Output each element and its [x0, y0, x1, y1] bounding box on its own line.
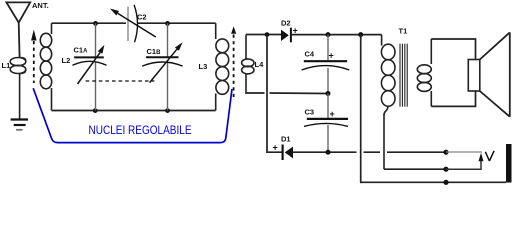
battery terminal bar	[506, 144, 512, 183]
wire row2 (T1 primary return to V)	[384, 168, 446, 170]
node junction T1 drop	[358, 32, 363, 37]
wire tank bottom rail	[52, 110, 216, 112]
svg-text:C4: C4	[305, 50, 315, 59]
trimmer capacitor C2	[110, 5, 156, 43]
svg-text:+: +	[273, 143, 278, 153]
wire speaker loop	[431, 39, 475, 106]
wire top rail to T1	[292, 34, 382, 36]
svg-text:D1: D1	[281, 135, 291, 144]
transformer T1 core	[400, 44, 407, 107]
node junction C3 bottom	[326, 150, 331, 155]
svg-text:T1: T1	[399, 27, 408, 36]
node terminal row1	[443, 150, 448, 155]
blue brace (nuclei regolabile pointer)	[33, 88, 232, 142]
dashed coupling arrow (L1-L2 adjustable core)	[31, 30, 36, 84]
dashed coupling arrow (L3-L4 adjustable core)	[231, 26, 236, 97]
inductor L1	[10, 58, 26, 119]
transformer T1 primary	[381, 35, 395, 170]
wire bottom rail row1	[293, 151, 446, 153]
diode D1	[273, 143, 294, 161]
svg-text:L3: L3	[199, 62, 208, 71]
wire D1 left leg	[267, 35, 282, 153]
node junction D2 feed	[265, 32, 270, 37]
inductor L4	[242, 35, 254, 93]
wire row1 stub	[446, 151, 482, 153]
svg-text:ANT.: ANT.	[32, 1, 49, 10]
wire L4 bottom to C3/C4 midpoint (crossing over)	[246, 92, 328, 93]
node junction C4 top	[326, 32, 331, 37]
svg-text:+: +	[329, 51, 334, 61]
svg-text:D2: D2	[281, 19, 291, 28]
node terminal row2	[443, 167, 448, 172]
node junction top C1A	[93, 21, 98, 26]
variable capacitor C1A	[73, 23, 107, 110]
svg-text:L2: L2	[62, 56, 71, 65]
transformer T1 secondary	[417, 39, 431, 106]
wire row3	[360, 181, 506, 183]
node junction bottom C1A	[93, 108, 98, 113]
antenna ANT.	[6, 2, 30, 57]
wire tank top rail	[52, 22, 216, 24]
svg-text:L4: L4	[255, 60, 265, 69]
svg-text:L1: L1	[2, 61, 11, 70]
capacitor C4	[302, 35, 350, 94]
node junction bottom C1B	[165, 108, 170, 113]
wire vertical drop to row3	[359, 35, 362, 183]
speaker	[468, 32, 510, 116]
label V	[485, 151, 494, 161]
wire V arrow riser	[446, 160, 481, 169]
svg-text:+: +	[330, 109, 335, 119]
node junction C4/C3 midpoint	[326, 91, 331, 96]
node terminal row3	[443, 180, 448, 185]
diode D2	[281, 26, 298, 43]
ground	[11, 120, 28, 130]
wire secondary top rail	[246, 34, 281, 36]
inductor L2	[40, 23, 51, 110]
svg-text:C2: C2	[137, 13, 147, 22]
capacitor C3	[304, 94, 348, 153]
arrow to V	[479, 153, 484, 162]
variable capacitor C1B	[142, 23, 182, 110]
inductor L3	[216, 23, 229, 110]
svg-text:C3: C3	[305, 108, 315, 117]
dashed gang link C1A-C1B	[86, 80, 155, 82]
svg-text:NUCLEI REGOLABILE: NUCLEI REGOLABILE	[89, 123, 192, 137]
node junction top C1B	[165, 21, 170, 26]
